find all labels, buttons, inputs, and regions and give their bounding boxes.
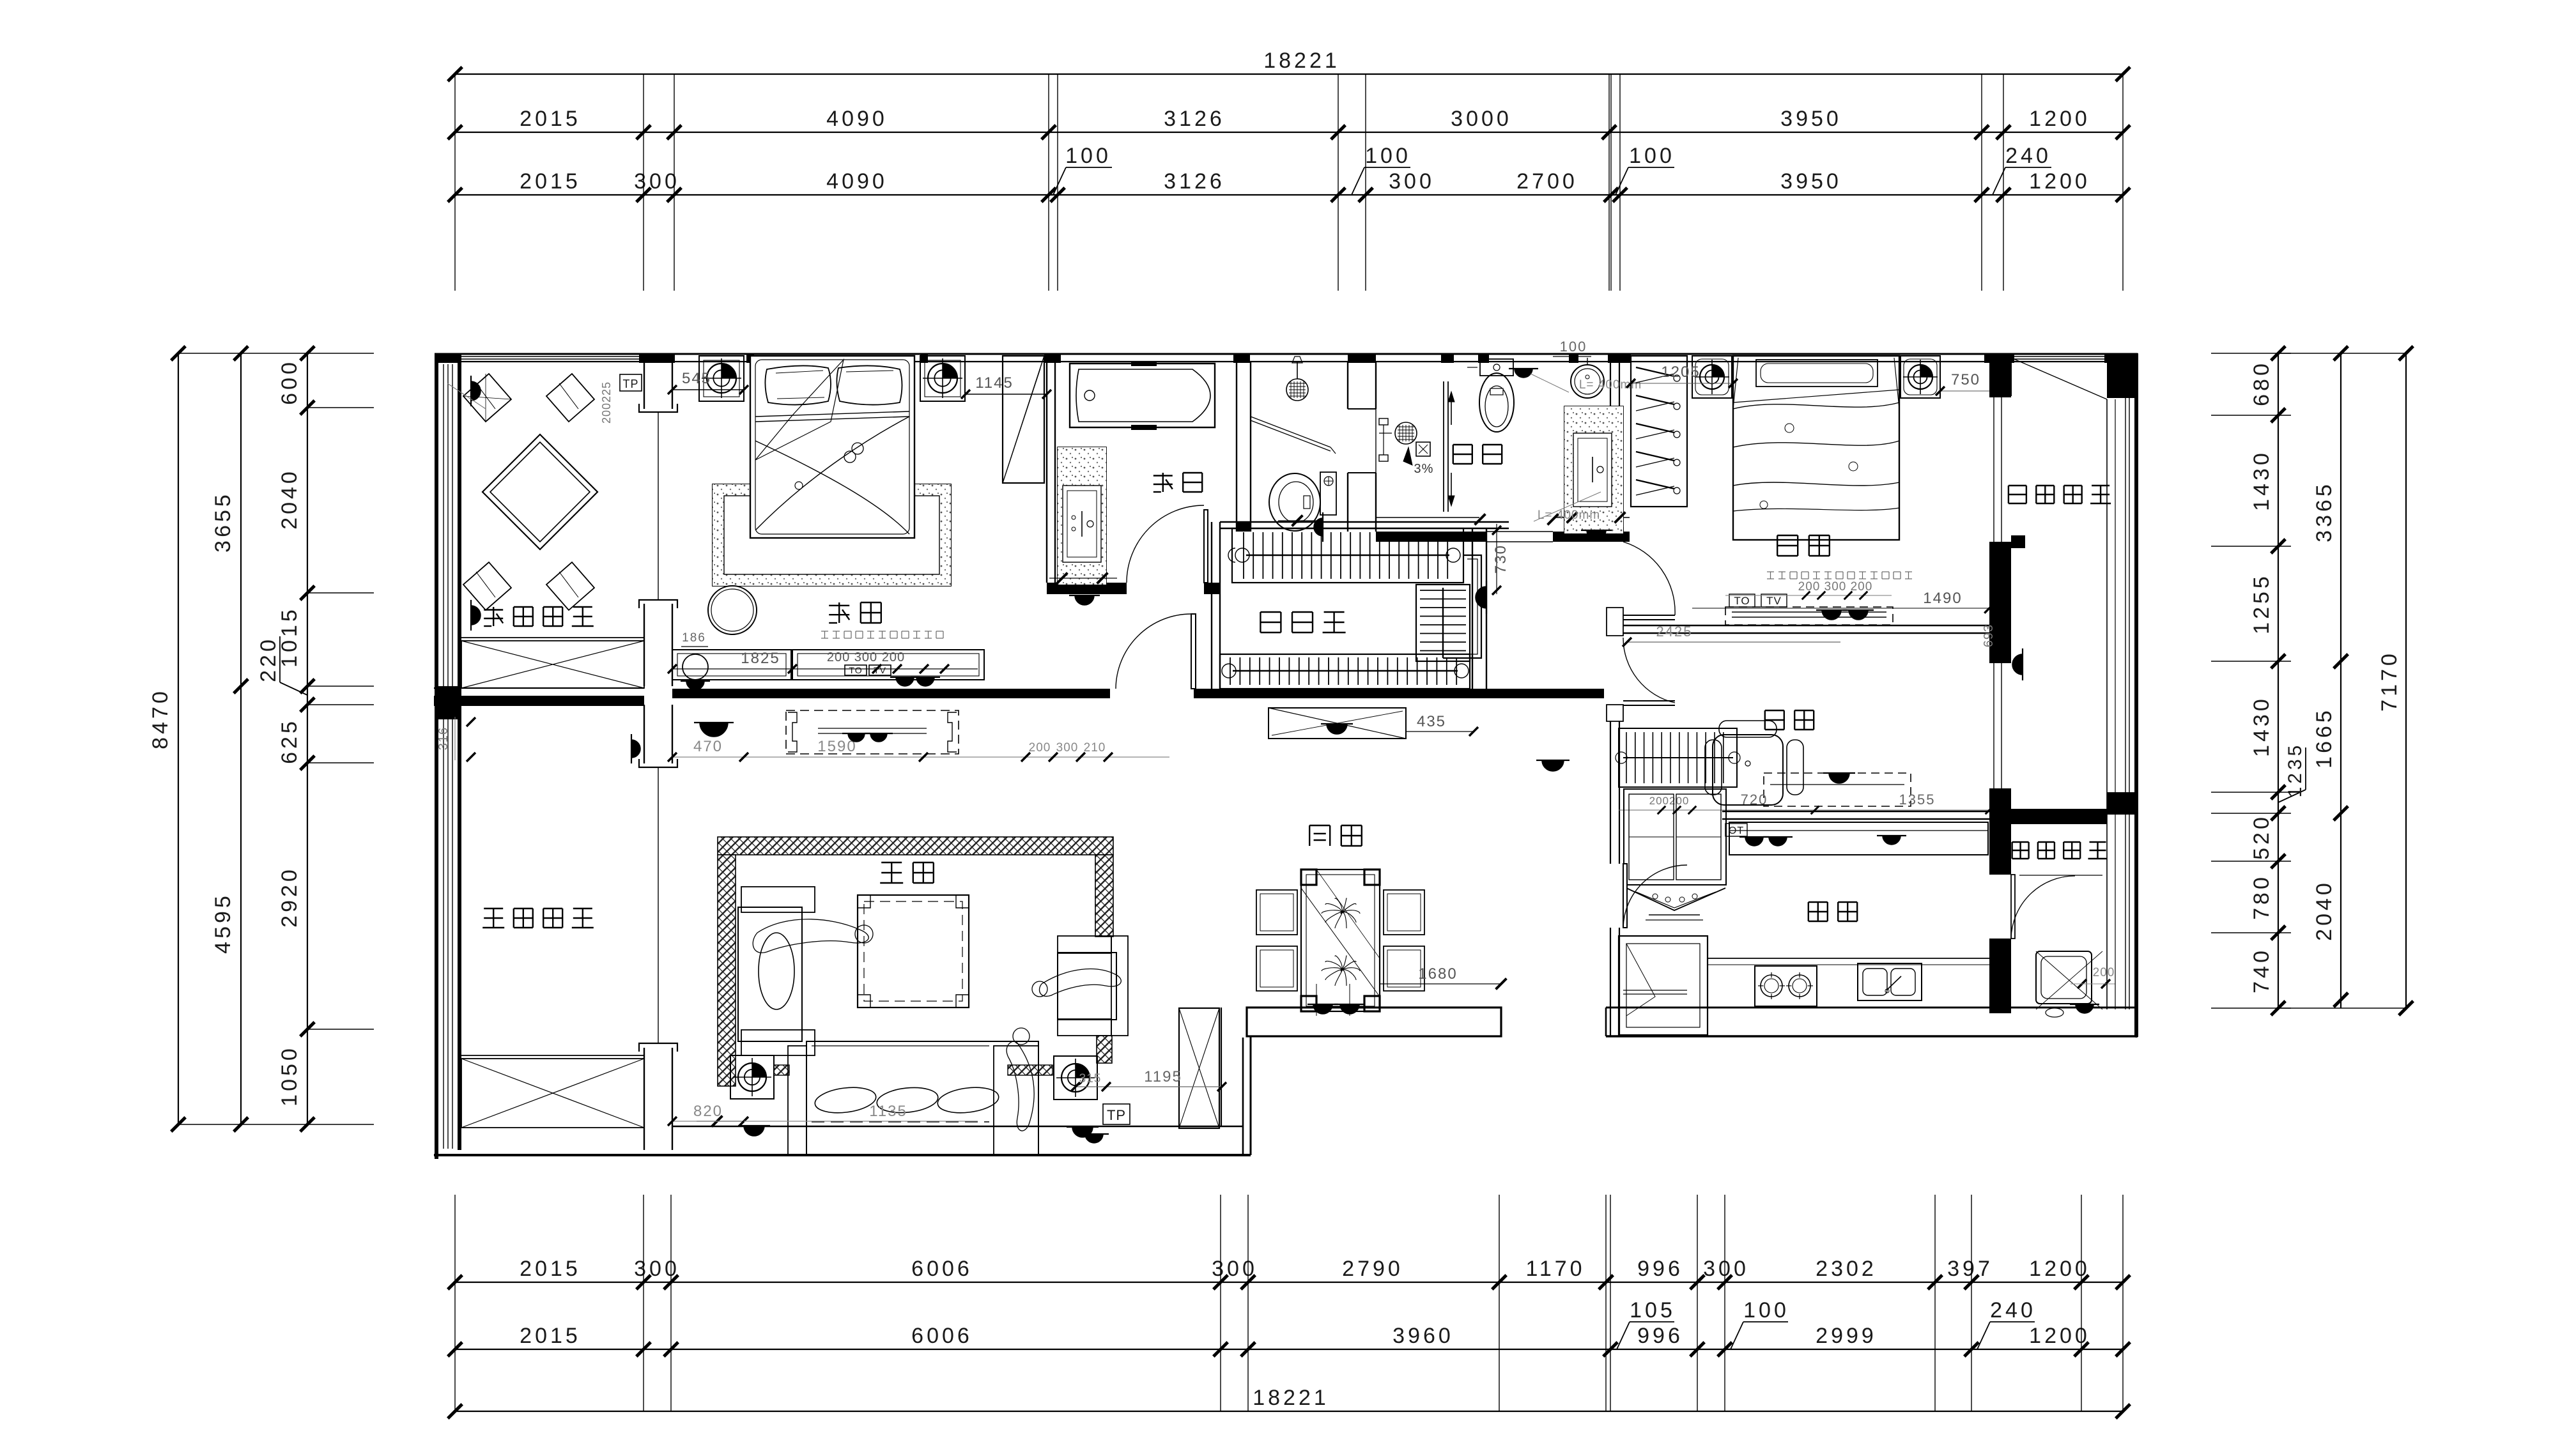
balcony top diagonal xyxy=(2011,358,2107,399)
svg-text:2015: 2015 xyxy=(520,107,581,131)
svg-text:6006: 6006 xyxy=(911,1257,973,1281)
living hatch strip to side tables xyxy=(774,1065,789,1075)
second bath door opening ticks xyxy=(1475,514,1486,525)
living balcony window X panel xyxy=(461,1059,644,1128)
svg-text:996: 996 xyxy=(1637,1257,1683,1281)
master TV cabinet xyxy=(792,650,984,680)
kitchen balcony lamp xyxy=(2070,1004,2099,1013)
wall balcony divider solid xyxy=(434,687,644,689)
svg-text:2040: 2040 xyxy=(2312,880,2336,941)
svg-text:TV: TV xyxy=(1766,595,1782,607)
room label living balcony 客厅阳台 xyxy=(484,908,503,909)
dimension left inner line xyxy=(307,353,308,1124)
svg-text:470: 470 xyxy=(693,738,723,755)
wall living-balcony/living-room xyxy=(644,705,645,763)
study armchair xyxy=(1713,735,1783,805)
room label master bedroom 主卧 xyxy=(829,605,849,606)
living lamp left xyxy=(738,1126,770,1136)
door jambs on hall wall xyxy=(1607,528,1623,538)
dimension bottom row1 line xyxy=(455,1282,2123,1283)
cloakroom corner rod xyxy=(1443,555,1481,658)
master dim 1825 line xyxy=(672,668,792,670)
svg-text:750: 750 xyxy=(1951,371,1980,388)
bath vanity lamp xyxy=(1069,595,1100,605)
second bedroom wardrobe hangers xyxy=(1631,356,1687,507)
svg-text:TP: TP xyxy=(622,378,638,390)
svg-text:200: 200 xyxy=(1029,741,1051,755)
svg-text:1200: 1200 xyxy=(2029,107,2090,131)
corridor dim line 470-1590 xyxy=(672,756,1169,758)
svg-text:1825: 1825 xyxy=(741,650,780,667)
dimension top row3 line xyxy=(455,194,2123,195)
dimension right extension stubs xyxy=(2211,353,2291,354)
second bath vanity lamp xyxy=(1581,530,1612,540)
svg-text:2040: 2040 xyxy=(277,468,302,530)
svg-text:3126: 3126 xyxy=(1164,169,1225,194)
svg-text:200: 200 xyxy=(2093,966,2115,979)
living side table right xyxy=(1054,1056,1097,1100)
master dim 1145 xyxy=(966,394,1047,395)
svg-text:625: 625 xyxy=(277,718,302,764)
svg-text:720: 720 xyxy=(1741,792,1768,808)
svg-text:200225: 200225 xyxy=(600,381,613,424)
second bath shower head xyxy=(1395,422,1417,444)
dimension top leader 100 at 1648 xyxy=(1053,167,1066,195)
second bedroom door arc xyxy=(1623,615,1675,616)
dimension top leader 100 at 2528 xyxy=(1616,167,1628,195)
svg-text:3950: 3950 xyxy=(1780,169,1842,194)
balcony cushion SW xyxy=(463,562,511,610)
svg-text:2015: 2015 xyxy=(520,169,581,194)
room label second bedroom balcony 次卧阳台 xyxy=(2009,485,2026,486)
dimension left middle line xyxy=(240,353,242,1124)
room label second bedroom 次卧 xyxy=(1777,535,1798,536)
second bath toilet xyxy=(1480,359,1513,376)
corridor lamp big xyxy=(694,723,734,737)
dining table xyxy=(1301,870,1380,1011)
svg-text:100: 100 xyxy=(1743,1298,1789,1322)
second bedroom TV console dashed xyxy=(1725,607,1893,625)
living bottom sofa xyxy=(806,1041,1038,1155)
svg-text:3655: 3655 xyxy=(211,491,235,553)
wall secondbath south xyxy=(1376,532,1486,542)
svg-text:680: 680 xyxy=(2249,360,2274,406)
master TV symbol and lamps xyxy=(845,665,867,675)
svg-text:1195: 1195 xyxy=(1144,1068,1182,1085)
svg-text:100: 100 xyxy=(1629,144,1675,168)
second nightstand left lamp xyxy=(1692,356,1732,398)
dining chairs right xyxy=(1384,890,1424,935)
living hatch border top xyxy=(718,837,1113,855)
living dim 820 xyxy=(672,1121,744,1122)
cloakroom top rack xyxy=(1232,528,1463,583)
svg-text:1430: 1430 xyxy=(2249,450,2274,511)
bedroom TP marker top xyxy=(620,374,642,391)
dimension left extension stubs xyxy=(307,353,374,354)
svg-text:1145: 1145 xyxy=(975,374,1014,392)
dimension top leader 100 at 2115 xyxy=(1352,167,1364,195)
corridor caption small text xyxy=(828,840,835,841)
room label living room 客厅 xyxy=(881,862,902,863)
living balcony sill line xyxy=(461,1055,644,1056)
living TP marker xyxy=(1103,1104,1130,1124)
dimension bottom leader 100 xyxy=(1731,1322,1743,1349)
wall rooms/balcony vertical x3113 xyxy=(1989,362,2011,397)
svg-text:316: 316 xyxy=(436,727,451,750)
svg-text:820: 820 xyxy=(693,1103,723,1120)
svg-text:3950: 3950 xyxy=(1780,107,1842,131)
kitchen balcony door arc xyxy=(2011,875,2015,939)
dimension bottom extension lines xyxy=(454,1195,456,1411)
dimension right inner line xyxy=(2278,353,2279,1008)
room label kitchen 厨房 xyxy=(1809,901,1828,903)
dimension right middle line xyxy=(2340,353,2341,1008)
svg-text:100: 100 xyxy=(1065,144,1111,168)
svg-text:2015: 2015 xyxy=(520,1324,581,1348)
corridor dashed console xyxy=(786,710,959,754)
balcony cushion NE xyxy=(546,374,594,422)
svg-text:300: 300 xyxy=(1212,1257,1258,1281)
kitchen hood fan xyxy=(1626,888,1725,910)
second bed frame xyxy=(1733,356,1899,540)
second nightstand right lamp xyxy=(1901,356,1940,398)
dimension bottom overall line 18221 xyxy=(455,1411,2123,1412)
svg-text:1430: 1430 xyxy=(2249,696,2274,757)
balcony window X panel xyxy=(461,641,644,688)
svg-text:2790: 2790 xyxy=(1342,1257,1403,1281)
svg-text:4595: 4595 xyxy=(211,893,235,954)
svg-text:3%: 3% xyxy=(1414,462,1434,476)
svg-text:7170: 7170 xyxy=(2377,650,2402,712)
svg-text:240: 240 xyxy=(1990,1298,2036,1322)
kitchen upper cabinet with panes xyxy=(1624,789,1726,885)
wall right exterior window band xyxy=(2134,353,2138,1037)
left dim 316 vertical xyxy=(454,717,456,760)
bath toilet xyxy=(1320,472,1336,515)
master dresser cabinet left xyxy=(672,650,791,680)
living left sofa xyxy=(738,907,802,1041)
svg-text:1170: 1170 xyxy=(1525,1257,1585,1281)
svg-text:1205: 1205 xyxy=(1661,364,1700,381)
svg-text:2920: 2920 xyxy=(277,866,302,928)
hall lamp xyxy=(1536,760,1570,771)
svg-text:8470: 8470 xyxy=(148,688,173,749)
svg-text:186: 186 xyxy=(682,631,706,645)
svg-text:1255: 1255 xyxy=(2249,573,2274,634)
svg-text:210: 210 xyxy=(1084,741,1106,755)
dining plants xyxy=(1341,910,1360,914)
dimension right leader 1235 xyxy=(2278,790,2306,802)
master bed pillows xyxy=(765,365,831,404)
wall bottom exterior left section xyxy=(434,1154,1251,1156)
partition second bath xyxy=(1443,381,1444,512)
second bed blanket curves xyxy=(1733,402,1899,409)
room label cloakroom 衣帽间 xyxy=(1260,611,1281,613)
wall top exterior xyxy=(435,353,2138,355)
dimension left leader 220 xyxy=(280,682,307,695)
wall bedroom2/study horizontal xyxy=(1623,625,1989,626)
balcony diamond table xyxy=(482,434,598,549)
wall cloakroom north xyxy=(1220,521,1509,523)
svg-text:4090: 4090 xyxy=(826,107,888,131)
dining chairs left xyxy=(1256,890,1297,935)
cloakroom bottom rack xyxy=(1220,654,1470,689)
dining lamps xyxy=(1307,1004,1338,1014)
study dim 2425 xyxy=(1627,641,1840,643)
living right armchair xyxy=(1058,953,1116,1020)
svg-text:OT: OT xyxy=(1729,825,1744,836)
living dim 1195 xyxy=(1076,1086,1222,1087)
balcony cushion SE xyxy=(546,562,594,610)
svg-text:4090: 4090 xyxy=(826,169,888,194)
living lamp right xyxy=(1067,1127,1099,1137)
svg-text:220: 220 xyxy=(256,636,281,682)
balcony corner lamp near living xyxy=(631,734,640,763)
svg-text:435: 435 xyxy=(1417,713,1446,730)
wall master-balcony/master-bedroom xyxy=(644,362,645,409)
svg-text:200 300 200: 200 300 200 xyxy=(827,650,905,664)
svg-text:397: 397 xyxy=(1947,1257,1993,1281)
second bath wash basin circle xyxy=(1571,365,1604,398)
study lamp xyxy=(1823,773,1855,783)
svg-text:1235: 1235 xyxy=(2285,742,2306,798)
living coffee table xyxy=(858,895,969,1008)
svg-text:2700: 2700 xyxy=(1516,169,1578,194)
svg-text:600: 600 xyxy=(277,359,302,405)
svg-text:300: 300 xyxy=(1056,741,1079,755)
second bath 3pct slope arrow xyxy=(1403,447,1412,465)
svg-text:300: 300 xyxy=(1389,169,1435,194)
svg-text:TO: TO xyxy=(1734,595,1750,607)
door cloakroom-corridor xyxy=(1191,614,1196,689)
second bed pillow xyxy=(1756,360,1878,387)
master nightstand left xyxy=(699,356,744,401)
master dim 200 300 200 xyxy=(792,668,978,670)
master wardrobe xyxy=(1003,356,1044,483)
dimension top extension lines xyxy=(454,74,456,291)
svg-text:1490: 1490 xyxy=(1923,590,1962,607)
svg-text:18221: 18221 xyxy=(1263,49,1340,73)
wall bottom step xyxy=(1242,1038,1244,1155)
caption under second bedroom xyxy=(1767,571,1774,572)
svg-text:TO: TO xyxy=(849,665,862,675)
dimension bottom leader 240 xyxy=(1977,1322,1990,1349)
wall masterbath south xyxy=(1047,583,1127,594)
svg-text:1355: 1355 xyxy=(1899,792,1936,808)
svg-text:1050: 1050 xyxy=(277,1045,302,1107)
master corner lamp symbol xyxy=(683,654,708,680)
room label master bath 主卫 xyxy=(1153,475,1173,476)
wall masterbath/shower vertical xyxy=(1236,362,1237,532)
wall corridor south / bedroom south xyxy=(672,689,1110,698)
svg-text:300: 300 xyxy=(1703,1257,1749,1281)
svg-text:200200: 200200 xyxy=(1649,795,1690,807)
living side table left xyxy=(730,1055,774,1099)
cloakroom dim 730 xyxy=(1496,524,1497,594)
dimension left overall line 8470 xyxy=(178,353,179,1124)
svg-text:6006: 6006 xyxy=(911,1324,973,1348)
wardrobe inner line xyxy=(1007,369,1040,470)
wall bottom kitchen section xyxy=(1606,1007,2138,1009)
kitchen stove xyxy=(1755,966,1817,1006)
room label study 书房 xyxy=(1765,710,1784,711)
wall left exterior window band xyxy=(435,353,438,1159)
wall cloakroom east xyxy=(1472,528,1473,689)
kitchen counter lamps xyxy=(1739,837,1769,846)
balcony cushion NW xyxy=(463,374,511,422)
svg-text:1015: 1015 xyxy=(277,606,302,668)
second bath faucet marks xyxy=(1379,418,1388,425)
svg-text:2302: 2302 xyxy=(1816,1257,1877,1281)
room label second bath 次卫 xyxy=(1453,444,1472,445)
wall hall/rooms vertical x2518 xyxy=(1610,362,1611,528)
study dims 200 200 720 1355 xyxy=(1619,809,1989,811)
svg-text:545: 545 xyxy=(682,370,711,387)
living hatch border left xyxy=(718,855,736,1086)
master bed frame xyxy=(750,356,914,538)
room label kitchen balcony 厨房阳台 xyxy=(2012,841,2029,843)
balcony lamp and dim 693 xyxy=(2000,610,2001,663)
study door arc xyxy=(1623,700,1675,701)
wall bedroom/masterbath vertical xyxy=(1046,362,1047,583)
room label master balcony 主卧阳台 xyxy=(484,609,503,610)
master round table xyxy=(708,586,757,634)
master dim 545 xyxy=(672,389,744,390)
second bedroom dim 200 300 200 xyxy=(1725,595,1892,596)
svg-text:240: 240 xyxy=(2005,144,2051,168)
balcony door lamp top xyxy=(471,376,481,406)
wall dining south thick xyxy=(1247,1008,1501,1036)
svg-text:100: 100 xyxy=(1560,339,1587,355)
cloakroom right rack xyxy=(1416,585,1470,661)
room label dining 餐厅 xyxy=(1309,825,1310,846)
svg-text:300: 300 xyxy=(634,169,680,194)
living bottom sofa person xyxy=(1007,1041,1034,1131)
dimension top leader 240 at 3118 xyxy=(1993,167,2005,195)
svg-text:1665: 1665 xyxy=(2312,707,2336,769)
wall study/kitchen horizontal xyxy=(1722,811,1989,812)
study bookshelf comb xyxy=(1619,728,1737,787)
svg-text:315: 315 xyxy=(1079,1072,1102,1085)
dining dim 1680 xyxy=(1380,983,1501,985)
svg-text:3960: 3960 xyxy=(1392,1324,1454,1348)
balcony window stub walls xyxy=(2011,535,2025,548)
svg-text:520: 520 xyxy=(2249,814,2274,860)
svg-text:TP: TP xyxy=(1107,1107,1126,1123)
second bath lamp near toilet xyxy=(1509,369,1538,378)
svg-text:3365: 3365 xyxy=(2312,481,2336,542)
kitchen fridge xyxy=(1619,936,1708,1035)
svg-text:18221: 18221 xyxy=(1253,1386,1329,1410)
caption under master bedroom xyxy=(821,631,828,632)
svg-text:1135: 1135 xyxy=(869,1103,907,1120)
wall between right balconies xyxy=(2011,809,2107,824)
living left sofa person xyxy=(753,919,868,953)
svg-text:1680: 1680 xyxy=(1418,965,1457,983)
second bedroom TO TV labels xyxy=(1729,594,1755,607)
svg-text:2999: 2999 xyxy=(1816,1324,1877,1348)
svg-text:730: 730 xyxy=(1492,544,1509,574)
shower room slope lines xyxy=(1251,417,1330,447)
svg-text:100: 100 xyxy=(1365,144,1411,168)
svg-text:740: 740 xyxy=(2249,947,2274,993)
svg-text:1200: 1200 xyxy=(2029,169,2090,194)
svg-text:200 300 200: 200 300 200 xyxy=(1798,580,1873,594)
svg-text:105: 105 xyxy=(1630,1298,1676,1322)
wall shower/secondbath vertical xyxy=(1347,362,1348,409)
master rug stipple border xyxy=(713,484,951,586)
balcony door lamp bottom xyxy=(471,600,481,631)
step window X panel xyxy=(1179,1008,1219,1128)
study desk dashed xyxy=(1764,773,1911,806)
svg-text:996: 996 xyxy=(1637,1324,1683,1348)
second bath dim 100 top xyxy=(1553,356,1591,357)
svg-text:693: 693 xyxy=(1982,624,1996,647)
bathtub xyxy=(1070,364,1215,427)
kitchen balcony washing machine xyxy=(2036,951,2092,1004)
dimension top row2 line xyxy=(455,132,2123,133)
second bedroom dim 1490 xyxy=(1692,608,1989,609)
kitchen sink xyxy=(1858,963,1922,1000)
dimension bottom leader 105 xyxy=(1617,1322,1630,1349)
bath toilet lamp xyxy=(1314,512,1323,542)
wall top columns xyxy=(435,353,461,363)
svg-text:2425: 2425 xyxy=(1656,624,1693,640)
living hatch border right xyxy=(1095,855,1113,937)
svg-text:3126: 3126 xyxy=(1164,107,1225,131)
wall cloakroom west xyxy=(1211,522,1212,689)
kitchen south counter xyxy=(1708,958,1989,959)
master bed blanket fold xyxy=(755,411,909,417)
bath vanity stipple xyxy=(1058,447,1106,585)
kitchen door arc from hall xyxy=(1623,864,1627,928)
svg-text:3000: 3000 xyxy=(1451,107,1512,131)
corridor lamp near cloakroom xyxy=(1476,581,1486,614)
second bedroom dim 1205 750 xyxy=(1631,383,1733,384)
svg-text:2015: 2015 xyxy=(520,1257,581,1281)
kitchen north counter xyxy=(1729,822,1988,855)
svg-text:1590: 1590 xyxy=(817,738,856,755)
hall console cabinet 435 xyxy=(1269,708,1406,739)
dimension right outer line 7170 xyxy=(2405,353,2407,1008)
shower room head xyxy=(1286,379,1308,401)
dimension bottom row2 line xyxy=(455,1349,2123,1350)
master nightstand right xyxy=(920,356,965,401)
living right armchair person xyxy=(1039,969,1121,997)
second bath vanity stipple xyxy=(1564,406,1623,533)
svg-text:300: 300 xyxy=(634,1257,680,1281)
balcony parapet line xyxy=(461,637,644,638)
second balcony window lines east xyxy=(2106,399,2108,1009)
living dim 1135 xyxy=(744,1121,978,1122)
dimension top overall line 18221 xyxy=(455,73,2123,75)
svg-text:780: 780 xyxy=(2249,874,2274,920)
